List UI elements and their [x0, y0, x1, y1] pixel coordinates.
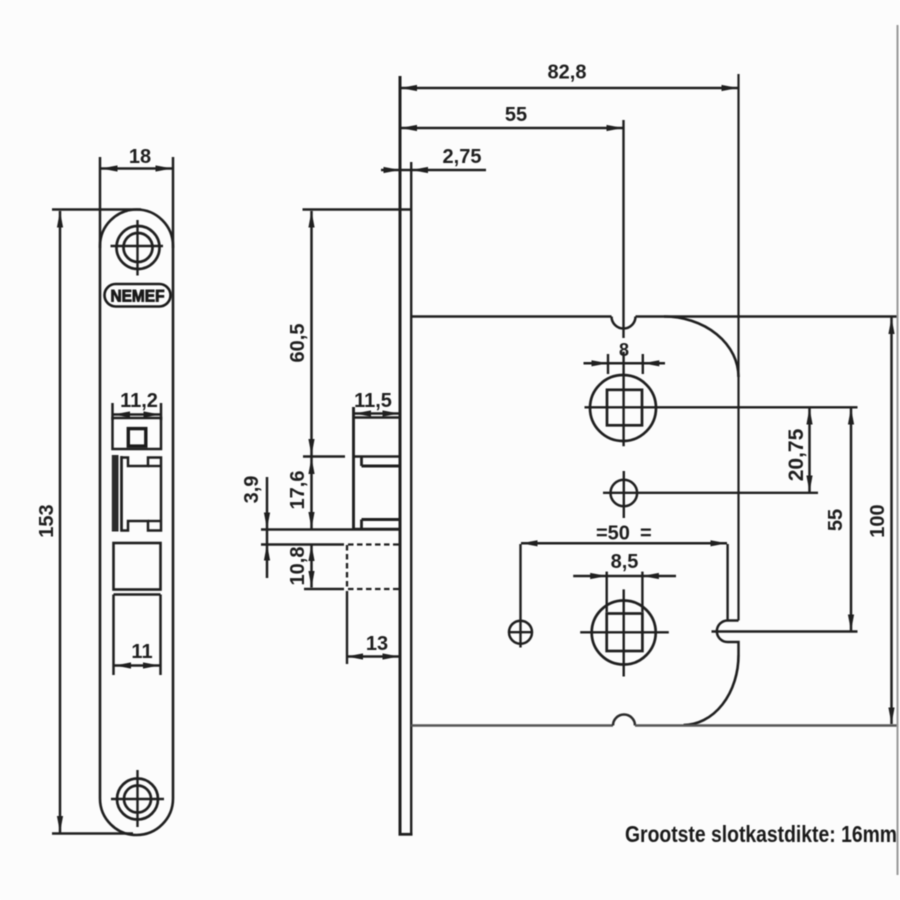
cylinder circle: [592, 601, 656, 665]
scan edge line right: [897, 25, 899, 875]
case bottom right arc: [684, 655, 739, 725]
dim =50= line: [521, 542, 727, 545]
case top edge: [411, 315, 612, 318]
svg-text:2,75: 2,75: [443, 146, 482, 168]
extension line y588: [304, 588, 344, 590]
M5 hole circle: [611, 480, 638, 507]
dim 17,6 line: [310, 458, 313, 529]
faceplate front outline (stadium): [100, 210, 173, 836]
svg-text:11,5: 11,5: [354, 390, 392, 412]
latch bolt thick face bar: [112, 455, 119, 532]
aux bolt top edge: [354, 416, 401, 419]
svg-text:60,5: 60,5: [287, 324, 309, 363]
dim 8 ticks: [607, 354, 609, 374]
cylinder square: [607, 614, 643, 652]
svg-text:18: 18: [129, 146, 151, 168]
hub centerline extension / 55 ext: [622, 120, 624, 338]
svg-text:13: 13: [366, 633, 388, 655]
svg-text:55: 55: [505, 104, 527, 126]
svg-text:20,75: 20,75: [785, 428, 808, 481]
extension line y543 solid part: [261, 543, 344, 545]
faceplate side bottom cap: [399, 833, 413, 836]
bottom screw hole inner circle: [124, 786, 151, 813]
case bottom notch: [613, 715, 635, 726]
dim 2,75 line: [381, 169, 486, 172]
latch side recess top: [360, 457, 363, 467]
top screw hole inner circle: [124, 233, 153, 262]
latch bolt inner face line: [120, 456, 123, 531]
svg-text:82,8: 82,8: [548, 62, 587, 84]
cylinder vertical centerline: [623, 589, 625, 676]
dim =50= right extension: [726, 544, 728, 620]
extension line y530: [261, 528, 400, 530]
hub square: [607, 390, 642, 426]
dim 55 right line: [850, 408, 853, 631]
hub horizontal centerline + dims extension: [585, 406, 858, 408]
case top edge right + 100 dim top extension: [636, 315, 898, 318]
extension lines for 18 dim: [99, 157, 102, 248]
dim 100 line: [890, 318, 893, 725]
extension line y457: [303, 455, 345, 457]
fixing hole crosshair: [519, 620, 521, 648]
top extension line 60,5: [303, 208, 412, 211]
top screw hole crosshair: [136, 220, 138, 276]
latch side recess bottom: [360, 520, 363, 530]
svg-text:8: 8: [619, 340, 629, 360]
NEMEF logo stadium: [105, 284, 171, 307]
dim 13 line: [347, 655, 400, 658]
case right edge + 82,8 extension: [737, 74, 739, 621]
case top right corner arc: [664, 317, 739, 378]
dim 55 top line: [401, 127, 624, 130]
case bottom edge: [411, 724, 613, 727]
deadbolt hidden face (dashed): [346, 545, 348, 590]
bottom screw hole outer circle: [117, 779, 158, 820]
svg-text:Grootste slotkastdikte: 16mm: Grootste slotkastdikte: 16mm: [625, 821, 897, 847]
fixing hole left circle: [509, 621, 532, 644]
deadbolt hidden bottom (dashed): [348, 588, 400, 590]
svg-text:=50=: =50=: [596, 523, 652, 545]
latch small square: [128, 429, 146, 447]
deadbolt slot left edge: [112, 595, 115, 676]
svg-text:55: 55: [825, 509, 847, 531]
ext line for 13: [346, 591, 348, 664]
extension line bottom for 153: [52, 832, 133, 835]
latch bolt flange lines: [148, 465, 161, 467]
dim 82,8 line: [401, 87, 739, 90]
dim 3,9 vertical: [266, 477, 269, 578]
dim 60,5 line: [310, 211, 313, 456]
dim 8,5 line: [573, 575, 676, 578]
svg-text:153: 153: [36, 504, 58, 537]
svg-text:3,9: 3,9: [241, 476, 263, 504]
dim 11,2 line: [114, 413, 161, 416]
svg-text:11,2: 11,2: [120, 390, 158, 412]
deadbolt slot top edge: [114, 593, 161, 595]
extension lines 11,2: [111, 403, 114, 420]
hub circle: [590, 375, 656, 441]
M5 hole vertical centerline: [623, 471, 625, 518]
dim 153 line: [59, 211, 62, 833]
right edge notch: [717, 621, 739, 656]
case top notch: [612, 317, 636, 329]
dim 20,75 line: [808, 408, 811, 492]
bottom screw hole crosshair: [136, 770, 138, 827]
svg-text:17,6: 17,6: [287, 471, 309, 510]
dim 8,5 ticks: [606, 572, 608, 612]
notch centerline: [712, 630, 858, 632]
deadbolt hidden top (dashed): [348, 543, 400, 545]
faceplate side front edge: [399, 76, 402, 835]
faceplate side back edge: [410, 162, 412, 835]
aux bolt and latch left edge: [352, 407, 355, 530]
latch bolt side top edge: [354, 455, 401, 458]
dim 11,5 line: [355, 412, 400, 415]
latch hole rectangle: [113, 418, 162, 449]
latch bolt side bottom edge: [354, 528, 401, 531]
svg-text:NEMEF: NEMEF: [111, 288, 165, 306]
dim 18 line: [101, 167, 172, 170]
M5 hole horizontal centerline + 20,75 extension: [603, 492, 818, 494]
cylinder horizontal centerline: [580, 631, 669, 633]
svg-text:10,8: 10,8: [287, 547, 309, 586]
top screw hole outer circle: [117, 226, 160, 269]
case bottom edge right + 100 dim bottom extension: [635, 724, 897, 727]
dim 8 line: [584, 362, 666, 365]
extension line top for 153: [52, 208, 141, 211]
dim 10,8 line: [310, 545, 313, 588]
square cutout: [114, 543, 161, 590]
svg-text:100: 100: [867, 504, 889, 537]
dim =50= left extension: [519, 544, 521, 622]
hub vertical centerline: [622, 352, 624, 446]
svg-text:8,5: 8,5: [611, 551, 639, 573]
latch bolt outline: [122, 458, 162, 531]
dim 11 line: [115, 664, 160, 667]
deadbolt slot right edge: [159, 595, 162, 676]
svg-text:11: 11: [131, 641, 152, 663]
